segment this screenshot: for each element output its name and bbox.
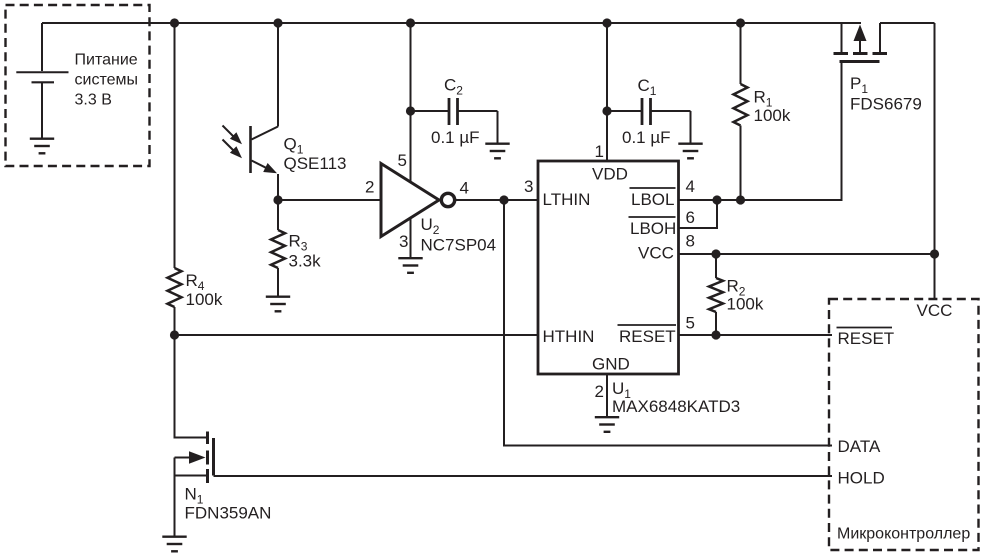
wire VDD pin1 bbox=[606, 23, 608, 161]
svg-text:LBOL: LBOL bbox=[631, 190, 674, 209]
node rail/C1 bbox=[602, 18, 611, 27]
node pin6/pin4 bbox=[712, 195, 721, 204]
svg-text:5: 5 bbox=[398, 151, 407, 170]
supply dashed box bbox=[6, 5, 150, 166]
svg-text:6: 6 bbox=[686, 208, 695, 227]
ground (N1) bbox=[162, 537, 186, 552]
ground (U1 pin2) bbox=[595, 417, 619, 432]
light arrow 1 bbox=[223, 126, 235, 138]
svg-text:NC7SP04: NC7SP04 bbox=[421, 236, 497, 255]
svg-text:FDS6679: FDS6679 bbox=[850, 95, 922, 114]
node pin8/R2 bbox=[711, 249, 720, 258]
svg-text:100k: 100k bbox=[754, 106, 791, 125]
svg-text:VDD: VDD bbox=[592, 165, 628, 184]
wire pin8 VCC net bbox=[679, 253, 935, 255]
svg-text:MAX6848KATD3: MAX6848KATD3 bbox=[612, 397, 740, 416]
ground (C1) bbox=[678, 144, 702, 159]
pin 3 wire of U2 bbox=[410, 215, 412, 258]
wire top rail bbox=[42, 22, 861, 24]
resistor R4 bbox=[168, 23, 182, 335]
ground (U2 pin3) bbox=[398, 258, 422, 273]
wire node to inverter input bbox=[278, 199, 381, 201]
node rail/R4 bbox=[170, 18, 179, 27]
svg-text:LBOH: LBOH bbox=[630, 219, 676, 238]
microcontroller dashed box bbox=[829, 299, 979, 550]
svg-text:8: 8 bbox=[686, 232, 695, 251]
resistor R3 bbox=[271, 200, 285, 297]
svg-text:3: 3 bbox=[399, 232, 408, 251]
svg-text:3.3 В: 3.3 В bbox=[75, 92, 112, 109]
battery BT1 bbox=[16, 23, 68, 139]
transistor P1 (PMOS) bbox=[834, 23, 935, 200]
ground (R3) bbox=[266, 297, 290, 312]
svg-text:FDN359AN: FDN359AN bbox=[185, 504, 272, 523]
resistor R1 bbox=[734, 23, 748, 200]
svg-text:HOLD: HOLD bbox=[838, 469, 885, 488]
svg-text:4: 4 bbox=[686, 177, 695, 196]
wire DATA net bbox=[504, 200, 832, 446]
light arrow 2 bbox=[223, 140, 235, 152]
resistor R2 bbox=[709, 254, 723, 335]
svg-text:Питание: Питание bbox=[75, 52, 138, 69]
node pin5/R2 bbox=[711, 330, 720, 339]
node R4/HTHIN bbox=[170, 330, 179, 339]
svg-text:системы: системы bbox=[75, 72, 138, 89]
svg-text:2: 2 bbox=[595, 382, 604, 401]
svg-text:RESET: RESET bbox=[619, 327, 676, 346]
node rail/R1 bbox=[736, 18, 745, 27]
node U2 out / DATA bbox=[499, 195, 508, 204]
svg-text:5: 5 bbox=[686, 314, 695, 333]
wire pin2 GND bbox=[606, 374, 608, 417]
svg-text:GND: GND bbox=[592, 354, 630, 373]
svg-text:4: 4 bbox=[460, 179, 469, 198]
wire U2 output bbox=[454, 199, 538, 201]
pin 5 wire of U2 bbox=[410, 23, 412, 183]
wire VCC right vertical bbox=[934, 23, 936, 298]
svg-text:3.3k: 3.3k bbox=[289, 252, 322, 271]
svg-text:QSE113: QSE113 bbox=[284, 154, 347, 173]
wire pin4 net (LBOL to P1 gate) bbox=[679, 199, 843, 201]
op-amp U2 inverter triangle bbox=[381, 164, 439, 237]
svg-text:VCC: VCC bbox=[917, 301, 953, 320]
svg-text:100k: 100k bbox=[727, 295, 764, 314]
transistor Q1 bbox=[251, 23, 279, 200]
node Q1/R3 bbox=[273, 195, 282, 204]
svg-text:0.1 µF: 0.1 µF bbox=[622, 128, 671, 147]
node rail/C2 bbox=[406, 18, 415, 27]
svg-text:0.1 µF: 0.1 µF bbox=[431, 128, 480, 147]
ground (battery) bbox=[30, 139, 54, 154]
wire pin5 RESET net bbox=[679, 334, 833, 336]
node rail/Q1 bbox=[273, 18, 282, 27]
svg-text:1: 1 bbox=[595, 142, 604, 161]
wire pin6 LBOH bbox=[679, 200, 718, 228]
capacitor C2 bbox=[406, 106, 415, 115]
transistor N1 (NMOS) bbox=[175, 432, 214, 537]
svg-text:3: 3 bbox=[524, 177, 533, 196]
node R1/pin4 bbox=[736, 195, 745, 204]
IC U1 box bbox=[538, 161, 679, 374]
wire HOLD net bbox=[214, 475, 833, 477]
svg-text:VCC: VCC bbox=[638, 244, 674, 263]
svg-text:Микроконтроллер: Микроконтроллер bbox=[837, 526, 970, 543]
svg-text:RESET: RESET bbox=[838, 329, 895, 348]
capacitor C1 bbox=[602, 106, 611, 115]
svg-text:HTHIN: HTHIN bbox=[543, 327, 595, 346]
ground (C2) bbox=[485, 144, 509, 159]
node VCC corner bbox=[930, 249, 939, 258]
wire R4 to N1 drain bbox=[175, 335, 207, 438]
svg-text:LTHIN: LTHIN bbox=[543, 190, 591, 209]
svg-text:DATA: DATA bbox=[838, 437, 881, 456]
svg-text:2: 2 bbox=[365, 178, 374, 197]
bubble of U2 bbox=[441, 193, 454, 206]
wire HTHIN bbox=[175, 334, 539, 336]
svg-text:100k: 100k bbox=[186, 290, 223, 309]
